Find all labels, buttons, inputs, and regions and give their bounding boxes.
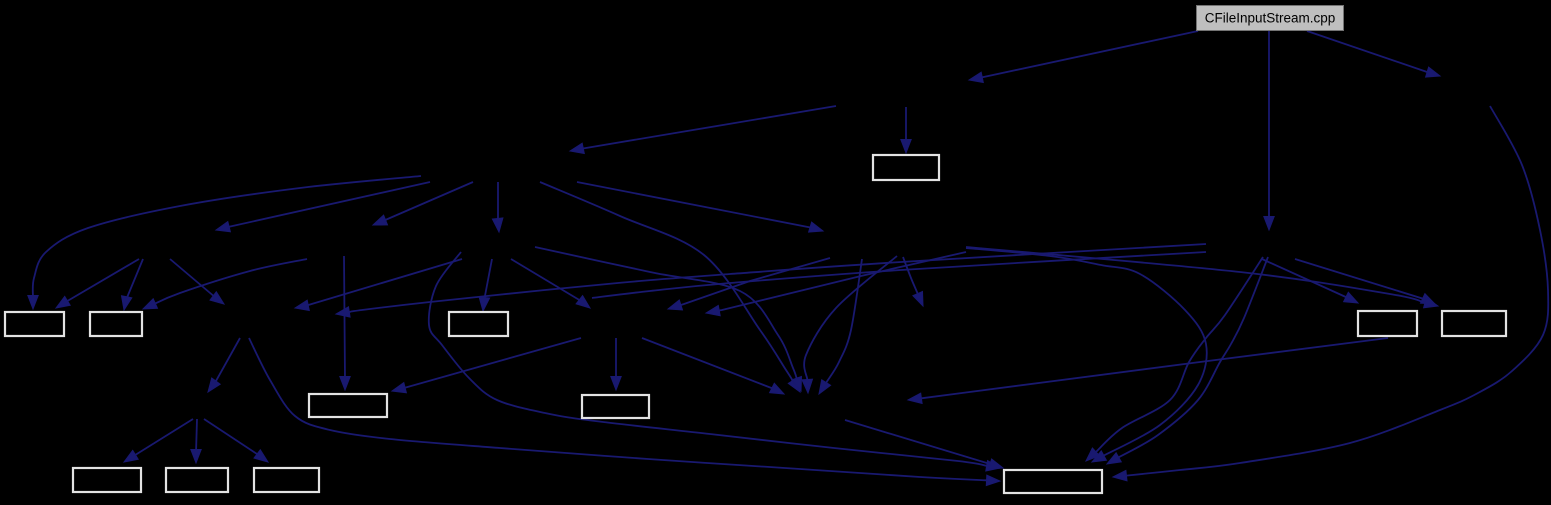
svg-text:CFileInputStream.cpp: CFileInputStream.cpp	[1205, 11, 1336, 26]
